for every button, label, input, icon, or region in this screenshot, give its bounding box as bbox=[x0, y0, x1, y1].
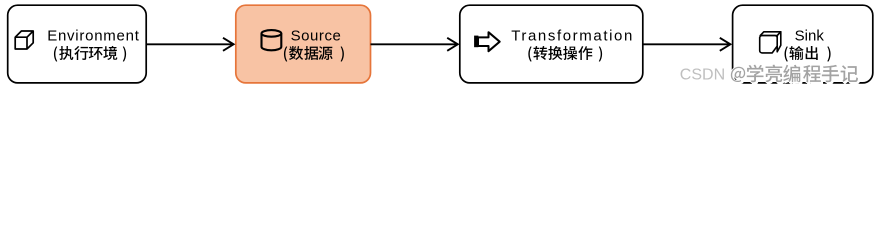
icon arrow (Transformation) bbox=[478, 32, 500, 51]
watermark CJK 学亮编程手记 bbox=[748, 66, 859, 84]
icon cube (Environment) bbox=[15, 31, 33, 49]
svg-text:Sink: Sink bbox=[795, 28, 825, 45]
svg-text:Environment: Environment bbox=[47, 28, 140, 45]
svg-text:Transformation: Transformation bbox=[511, 28, 634, 45]
labels line 1 bbox=[47, 28, 824, 45]
icon database (Source) bbox=[262, 30, 282, 50]
diagram: Flink dataflow Environment->Source->Transformation->Sink bbox=[0, 0, 885, 90]
svg-text:CSDN: CSDN bbox=[680, 66, 725, 83]
box Transformation bbox=[460, 5, 643, 83]
label CJK (输出) bbox=[785, 46, 831, 62]
icon note (Sink) bbox=[760, 32, 781, 53]
arrow 2 bbox=[371, 38, 458, 51]
arrow 1 bbox=[146, 38, 233, 51]
label CJK (执行环境) bbox=[54, 46, 126, 62]
svg-text:Source: Source bbox=[291, 28, 342, 45]
label CJK (数据源) bbox=[284, 46, 344, 62]
arrow 3 bbox=[643, 38, 731, 51]
label CJK (转换操作) bbox=[528, 46, 602, 62]
box Source (orange) bbox=[236, 5, 371, 83]
box Environment bbox=[8, 5, 147, 83]
box Sink bbox=[733, 5, 873, 83]
